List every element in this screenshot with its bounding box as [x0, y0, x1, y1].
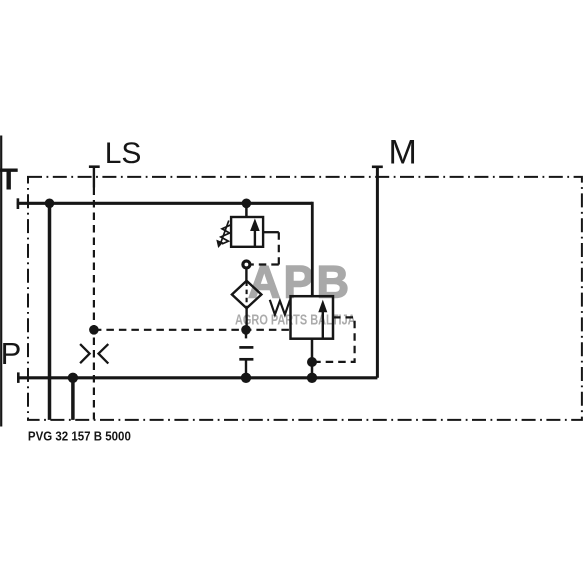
wire LS pilot line vertical dashed: [93, 188, 95, 420]
wire LS branch dashed horizontal: [94, 329, 291, 331]
wire ring to filter: [245, 269, 247, 281]
node ring below relief valve: [243, 261, 250, 268]
relief valve adjustable spring: [221, 225, 231, 244]
svg-text:PVG 32 157 B 5000: PVG 32 157 B 5000: [28, 429, 131, 444]
dash-dot enclosure border: [28, 177, 582, 420]
T port terminal tick: [17, 198, 20, 209]
wire relief valve supply: [245, 203, 248, 217]
wire P horizontal rail: [17, 376, 377, 379]
wire P down-pipe: [71, 378, 75, 420]
junction compensator outlet / P rail: [307, 373, 317, 383]
wire plug to P rail: [245, 360, 247, 378]
relief valve pilot dashed down: [278, 232, 280, 264]
junction pilot / compensator outlet: [307, 357, 317, 367]
svg-text:M: M: [389, 133, 417, 171]
relief valve pilot dashed to node: [251, 263, 279, 265]
junction LS line / LS branch: [89, 325, 99, 335]
filter (diamond): [232, 281, 262, 308]
plug (two plates): [239, 346, 253, 349]
svg-text:P: P: [1, 336, 22, 371]
junction P rail / P down-pipe: [68, 373, 78, 383]
junction LS branch / plug column: [241, 325, 251, 335]
svg-text:LS: LS: [105, 137, 142, 170]
relief valve flow arrow: [254, 231, 256, 247]
relief valve pilot tap solid: [263, 231, 279, 233]
P port terminal tick: [17, 372, 20, 383]
LS port terminal bar: [89, 165, 100, 168]
junction plug column / P rail: [241, 373, 251, 383]
wire M stem: [376, 167, 379, 378]
compensator pilot dashed loop: [316, 317, 355, 362]
wire filter to LS branch: [245, 308, 247, 330]
wire compensator feed (corner from T rail): [311, 202, 314, 297]
compensator spring: [270, 300, 290, 315]
orifice (restrictor) in LS line: [80, 344, 108, 363]
relief valve body: [231, 217, 263, 247]
svg-text:T: T: [0, 163, 18, 197]
watermark APB logo: [235, 256, 356, 327]
wire to plug: [245, 330, 247, 339]
junction T rail / T down-pipe: [45, 199, 55, 209]
compensator flow arrow: [322, 312, 324, 339]
wire T down-pipe: [48, 203, 52, 420]
M port terminal bar: [372, 166, 383, 169]
left edge trim line: [0, 136, 2, 427]
pressure compensator body: [291, 296, 334, 339]
svg-text:AGRO PARTS BALTIJA: AGRO PARTS BALTIJA: [235, 311, 356, 328]
junction T rail / relief valve branch: [242, 199, 252, 209]
wire T horizontal rail: [17, 202, 313, 205]
wire LS stem solid: [93, 167, 95, 188]
wire compensator outlet: [311, 339, 314, 378]
